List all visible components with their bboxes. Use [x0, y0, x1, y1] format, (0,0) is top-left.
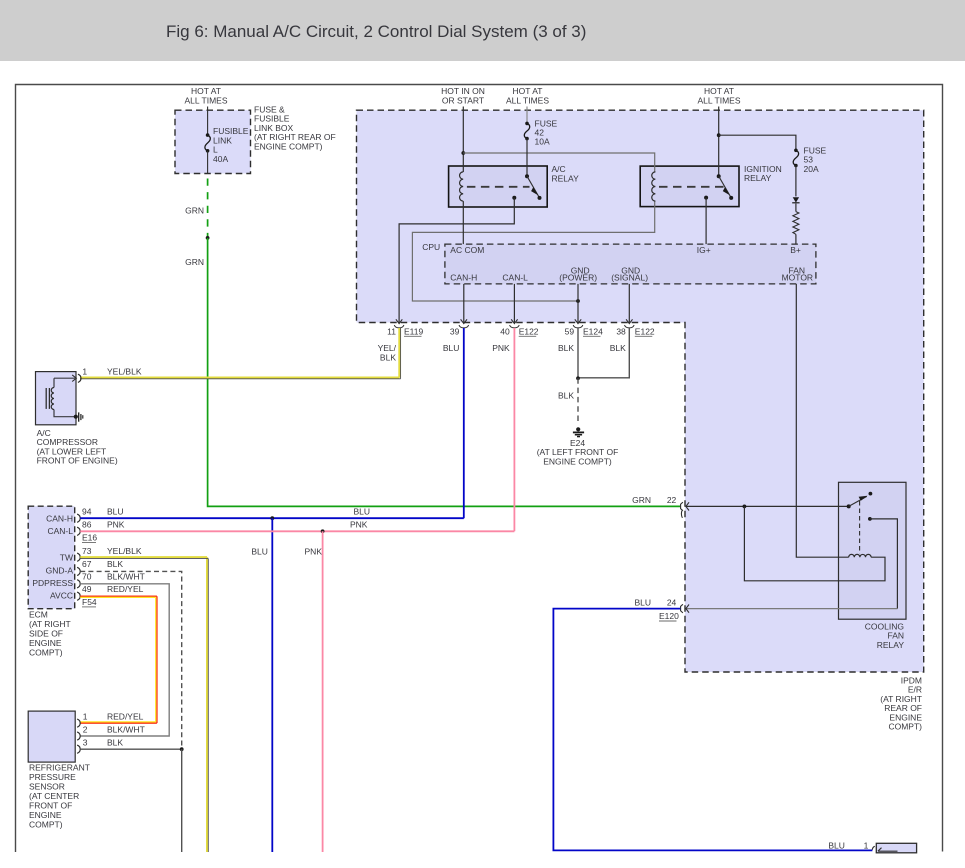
- svg-text:FRONT OF ENGINE): FRONT OF ENGINE): [37, 456, 118, 466]
- svg-text:40A: 40A: [213, 154, 228, 164]
- label HOT AT ALL TIMES (fuse 42): [506, 86, 549, 106]
- label FUSE & FUSIBLE LINK BOX: [254, 105, 336, 152]
- svg-text:73: 73: [82, 546, 92, 556]
- cooling fan relay dashed link: [859, 501, 861, 554]
- svg-text:2: 2: [83, 724, 88, 734]
- diode D1: [792, 197, 799, 203]
- refrigerant sensor pin terminals: [77, 719, 80, 753]
- svg-text:E122: E122: [635, 327, 655, 337]
- wire hot feed into fusible link: [207, 107, 209, 136]
- svg-text:70: 70: [82, 572, 92, 582]
- wire A/C relay common to pin 11: [399, 198, 514, 323]
- svg-text:RED/YEL: RED/YEL: [107, 712, 144, 722]
- label FUSIBLE LINK L 40A: [213, 126, 249, 164]
- cooling fan relay switch: [847, 492, 873, 521]
- svg-text:YEL/BLK: YEL/BLK: [107, 546, 142, 556]
- fusible link L 40A symbol: [205, 133, 210, 173]
- wire coil return to switch feed: [744, 506, 885, 580]
- wire ignition relay common to CPU IG+: [705, 198, 707, 245]
- svg-text:E119: E119: [404, 327, 423, 337]
- ignition relay dashed link: [659, 186, 724, 188]
- cooling fan relay box U3: [839, 482, 907, 619]
- fuse 53 20A symbol: [793, 149, 798, 168]
- node splice on GND POWER column: [576, 299, 580, 303]
- svg-text:B+: B+: [790, 245, 801, 255]
- label ECM location: [29, 610, 71, 658]
- svg-text:YEL/BLK: YEL/BLK: [107, 367, 142, 377]
- svg-text:59: 59: [565, 327, 575, 337]
- svg-text:CAN-H: CAN-H: [450, 273, 477, 283]
- pin 59 connector arrow: [573, 319, 583, 328]
- svg-text:39: 39: [450, 327, 460, 337]
- svg-text:BLU: BLU: [634, 597, 651, 607]
- svg-text:MOTOR: MOTOR: [782, 273, 813, 283]
- wire NO contact to pin 24: [870, 519, 898, 609]
- svg-text:RELAY: RELAY: [552, 173, 580, 183]
- pin 11 connector arrow: [394, 319, 404, 328]
- label FUSE 53 20A: [804, 146, 827, 174]
- node ground splice: [576, 376, 580, 380]
- svg-text:BLK: BLK: [558, 343, 574, 353]
- A/C relay coil: [460, 172, 464, 201]
- label IGNITION RELAY: [744, 164, 782, 183]
- svg-text:24: 24: [667, 597, 677, 607]
- svg-text:PDPRESS: PDPRESS: [32, 578, 73, 588]
- svg-text:HOT IN ON: HOT IN ON: [441, 86, 485, 96]
- svg-text:F54: F54: [82, 597, 97, 607]
- label HOT AT ALL TIMES (right): [698, 86, 741, 106]
- svg-text:PNK: PNK: [492, 343, 510, 353]
- svg-text:ALL TIMES: ALL TIMES: [185, 96, 228, 106]
- cooling fan relay coil: [849, 554, 871, 557]
- svg-text:AVCC: AVCC: [50, 590, 73, 600]
- svg-text:RED/YEL: RED/YEL: [107, 584, 144, 594]
- svg-text:ECM: ECM: [29, 610, 48, 620]
- label COOLING FAN RELAY: [865, 622, 905, 650]
- A/C compressor box: [36, 372, 77, 425]
- label REFRIGERANT PRESSURE SENSOR: [29, 763, 90, 830]
- svg-text:(POWER): (POWER): [559, 273, 597, 283]
- ECM wire labels: [82, 507, 145, 607]
- wire BLK sensor pin 3 to splice: [80, 748, 182, 750]
- svg-text:REFRIGERANT: REFRIGERANT: [29, 763, 90, 773]
- wire hot at all times feed to fuse 42: [526, 107, 528, 124]
- wire PNK pin 40 down: [513, 328, 515, 531]
- label pin 1 YEL/BLK (compressor): [82, 367, 141, 377]
- svg-text:E122: E122: [519, 327, 539, 337]
- wire hot feed to fuse 53: [719, 135, 796, 150]
- pin 22 connector (GRN into IPDM): [681, 502, 849, 518]
- wire PNK CAN-L ECM to pin 40: [80, 530, 514, 532]
- wire FAN MOTOR output to cooling fan relay coil: [796, 284, 848, 557]
- svg-text:BLK: BLK: [107, 738, 123, 748]
- svg-text:HOT AT: HOT AT: [513, 86, 543, 96]
- svg-text:ALL TIMES: ALL TIMES: [506, 96, 549, 106]
- svg-text:ENGINE: ENGINE: [29, 810, 62, 820]
- svg-text:BLU: BLU: [251, 547, 268, 557]
- svg-text:HOT AT: HOT AT: [704, 86, 734, 96]
- svg-text:E120: E120: [659, 611, 679, 621]
- node splice at A/C relay coil feed: [461, 151, 465, 155]
- svg-text:IG+: IG+: [697, 245, 711, 255]
- svg-text:TW: TW: [60, 553, 73, 563]
- svg-text:HOT AT: HOT AT: [191, 86, 221, 96]
- ECM pin terminals: [77, 514, 80, 600]
- svg-text:BLK: BLK: [380, 352, 396, 362]
- svg-text:SIDE OF: SIDE OF: [29, 629, 63, 639]
- svg-text:GRN: GRN: [632, 495, 651, 505]
- F54 underline: [82, 606, 96, 608]
- svg-text:PNK: PNK: [350, 520, 368, 530]
- label HOT IN ON OR START: [441, 86, 485, 106]
- svg-text:Fig 6: Manual A/C Circuit, 2 C: Fig 6: Manual A/C Circuit, 2 Control Dia…: [166, 22, 586, 41]
- ignition relay box U2: [640, 166, 739, 207]
- pin labels row: [387, 327, 655, 337]
- wire RED/YEL AVCC to sensor pin 1: [80, 596, 157, 723]
- CPU block (dashed): [445, 244, 816, 284]
- wire GND SIGNAL column to pin 38: [628, 284, 630, 323]
- wire BLK pin 59 down: [577, 328, 579, 378]
- svg-text:ENGINE: ENGINE: [29, 638, 62, 648]
- svg-text:94: 94: [82, 507, 92, 517]
- svg-text:GND-A: GND-A: [46, 565, 74, 575]
- label E24: [537, 438, 619, 466]
- svg-text:GRN: GRN: [185, 257, 204, 267]
- pin 24 connector (BLU out of IPDM): [681, 604, 898, 613]
- svg-text:FRONT OF: FRONT OF: [29, 801, 72, 811]
- wire BLK GND-A dashed: [80, 571, 182, 749]
- wire resistor to CPU B+: [795, 234, 797, 244]
- bottom right connector box: [876, 843, 916, 853]
- svg-text:1: 1: [864, 840, 869, 850]
- svg-text:BLK: BLK: [558, 391, 574, 401]
- wire CAN-H column to pin 39: [463, 284, 465, 323]
- svg-text:PNK: PNK: [305, 547, 323, 557]
- svg-text:BLU: BLU: [354, 507, 371, 517]
- svg-text:CAN-L: CAN-L: [47, 526, 73, 536]
- svg-text:(SIGNAL): (SIGNAL): [611, 273, 648, 283]
- svg-text:SENSOR: SENSOR: [29, 782, 65, 792]
- wire CAN-L column to pin 40: [513, 284, 515, 323]
- CPU pin labels: [450, 245, 813, 283]
- wire GRN solid down and right to pin 22: [208, 238, 681, 507]
- wire YEL/BLK pin 11 to compressor: [80, 328, 401, 379]
- resistor R1: [793, 212, 799, 235]
- svg-text:20A: 20A: [804, 164, 819, 174]
- svg-text:86: 86: [82, 520, 92, 530]
- svg-text:22: 22: [667, 495, 677, 505]
- pin 39 connector arrow: [459, 319, 469, 328]
- wire BLK/WHT PDPRESS to sensor pin 2: [80, 584, 169, 736]
- svg-text:PNK: PNK: [107, 520, 125, 530]
- svg-text:PRESSURE: PRESSURE: [29, 772, 76, 782]
- mid-span wire labels BLU PNK: [251, 507, 370, 557]
- label A/C COMPRESSOR: [37, 428, 118, 466]
- svg-text:(AT RIGHT: (AT RIGHT: [29, 619, 71, 629]
- wire hot in on or start feed: [462, 107, 464, 173]
- svg-text:AC COM: AC COM: [450, 245, 484, 255]
- svg-text:OR START: OR START: [442, 96, 484, 106]
- wire BLU pin 39 down: [463, 328, 465, 518]
- svg-text:E16: E16: [82, 533, 97, 543]
- ignition relay coil: [652, 172, 656, 201]
- node BLU splice: [270, 516, 274, 520]
- wire BLU drop to bottom: [271, 518, 273, 852]
- svg-text:CPU: CPU: [422, 242, 440, 252]
- label A/C RELAY: [552, 164, 580, 183]
- IPDM E/R block (dashed outline, lavender): [357, 110, 924, 672]
- node BLK splice: [180, 747, 184, 751]
- wire YEL/BLK TW to bottom: [80, 557, 208, 852]
- svg-text:COMPT): COMPT): [888, 722, 922, 732]
- svg-text:CAN-H: CAN-H: [46, 513, 73, 523]
- svg-text:RELAY: RELAY: [744, 173, 772, 183]
- wire BLU pin 24 to bottom right connector: [553, 609, 872, 851]
- A/C relay box U1: [449, 166, 548, 207]
- bottom right connector terminal: [872, 846, 897, 851]
- node PNK splice: [321, 529, 325, 533]
- svg-text:3: 3: [83, 738, 88, 748]
- wire fuse 42 to A/C relay switch: [526, 139, 528, 177]
- wire BLK dashed to E24 ground: [577, 378, 579, 424]
- wire PNK drop to bottom: [322, 531, 324, 852]
- wire A/C relay coil to CPU AC COM: [462, 201, 464, 244]
- node green splice: [206, 236, 210, 240]
- label YEL/ BLK (pin 11): [378, 343, 397, 363]
- label BLU 1 (bottom): [828, 840, 868, 850]
- svg-text:10A: 10A: [535, 137, 550, 147]
- svg-text:BLK/WHT: BLK/WHT: [107, 724, 145, 734]
- sensor wire labels: [83, 712, 145, 748]
- svg-text:COMPT): COMPT): [29, 820, 63, 830]
- ECM pin name labels: [32, 513, 73, 600]
- svg-text:1: 1: [82, 367, 87, 377]
- label IPDM E/R location: [880, 676, 922, 732]
- label FUSE 42 10A: [535, 118, 558, 146]
- wire BLK down to bottom: [181, 749, 183, 852]
- wire BLU CAN-H ECM to pin 39: [80, 517, 464, 519]
- ground E24: [573, 427, 584, 436]
- wire GND POWER column to pin 59: [577, 284, 579, 323]
- svg-text:BLU: BLU: [107, 507, 124, 517]
- label BLU 24 E120: [634, 597, 679, 621]
- title bar: [0, 0, 965, 61]
- fuse 42 10A symbol: [524, 122, 529, 141]
- svg-text:BLK: BLK: [610, 343, 626, 353]
- pin 38 connector arrow: [625, 319, 635, 328]
- ignition relay switch: [704, 174, 733, 200]
- A/C relay dashed link: [467, 186, 530, 188]
- wire diode to resistor: [795, 204, 797, 212]
- E16 underline: [82, 542, 96, 544]
- refrigerant pressure sensor box: [28, 711, 75, 762]
- svg-text:BLU: BLU: [443, 343, 460, 353]
- svg-text:1: 1: [83, 712, 88, 722]
- svg-text:RELAY: RELAY: [877, 640, 905, 650]
- pin 40 connector arrow: [510, 319, 520, 328]
- svg-text:CAN-L: CAN-L: [502, 273, 528, 283]
- svg-text:38: 38: [616, 327, 626, 337]
- wire BLK pin 38 down and left: [578, 328, 629, 378]
- ECM connector box (dashed): [28, 506, 74, 609]
- svg-text:11: 11: [387, 327, 396, 337]
- svg-text:GRN: GRN: [185, 206, 204, 216]
- compressor case ground: [74, 412, 83, 421]
- svg-text:BLK: BLK: [107, 559, 123, 569]
- svg-text:ENGINE COMPT): ENGINE COMPT): [254, 141, 323, 151]
- label HOT AT ALL TIMES (left): [185, 86, 228, 106]
- svg-text:YEL/: YEL/: [378, 343, 397, 353]
- wire gray branch to ignition relay coil: [412, 153, 654, 301]
- svg-text:ALL TIMES: ALL TIMES: [698, 96, 741, 106]
- svg-text:40: 40: [500, 327, 510, 337]
- wire fuse 53 to diode: [795, 166, 797, 197]
- A/C relay switch: [512, 174, 541, 200]
- node cooling fan relay feed splice: [743, 505, 747, 509]
- fuse & fusible link box: [175, 110, 251, 173]
- svg-text:49: 49: [82, 584, 92, 594]
- svg-text:ENGINE COMPT): ENGINE COMPT): [543, 456, 612, 466]
- A/C compressor internals: [46, 374, 81, 417]
- svg-text:E124: E124: [583, 327, 603, 337]
- svg-text:67: 67: [82, 559, 92, 569]
- svg-text:BLK/WHT: BLK/WHT: [107, 572, 145, 582]
- wire ignition relay switch feed: [718, 107, 720, 177]
- label GRN 22: [632, 495, 676, 505]
- svg-text:(AT CENTER: (AT CENTER: [29, 791, 79, 801]
- node splice hot feed: [717, 133, 721, 137]
- svg-text:BLU: BLU: [828, 840, 845, 850]
- svg-text:COMPT): COMPT): [29, 648, 63, 658]
- wire GRN dashed from fusible link: [207, 174, 209, 238]
